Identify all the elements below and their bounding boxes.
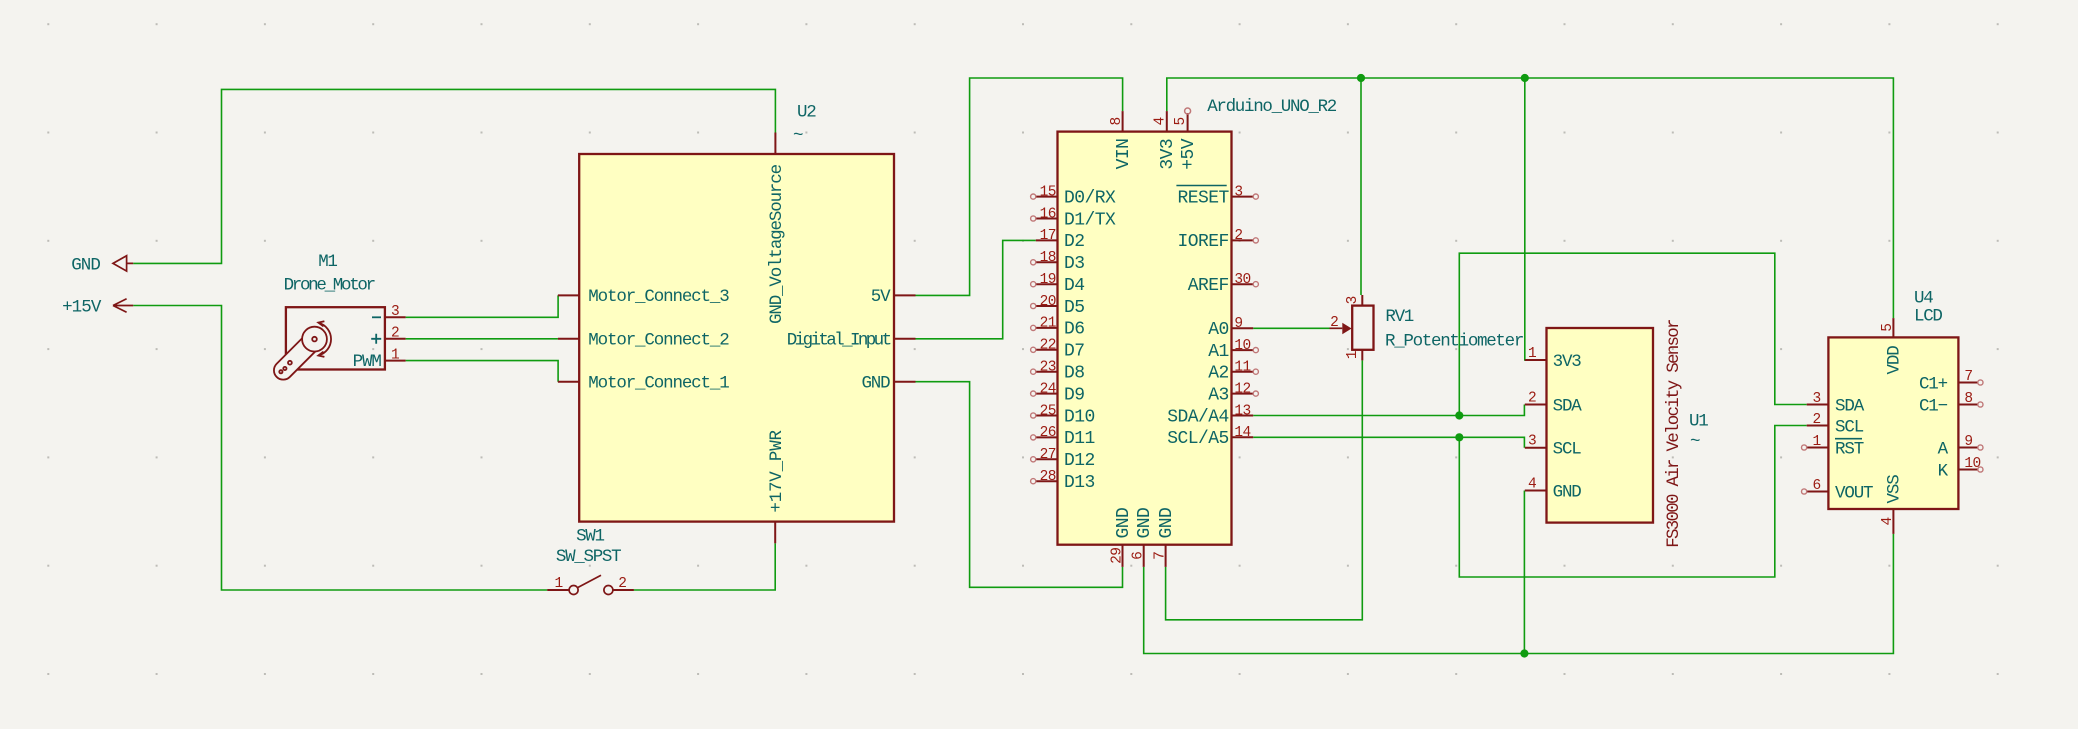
LCD pin 2 SCL [1807,425,1829,427]
svg-text:Motor_Connect_3: Motor_Connect_3 [588,287,729,307]
svg-text:D0/RX: D0/RX [1064,188,1116,208]
Arduino pin 21 D6 [1036,327,1058,329]
Arduino pin 18 D3 [1036,261,1058,263]
svg-text:9: 9 [1234,316,1242,332]
svg-text:RV1: RV1 [1385,307,1413,327]
svg-text:GND: GND [1114,508,1134,539]
svg-text:9: 9 [1964,434,1972,450]
U2 pin Motor_Connect_3 [558,294,579,296]
svg-text:5V: 5V [871,287,891,307]
svg-text:5: 5 [1880,324,1896,332]
svg-text:19: 19 [1040,272,1056,288]
svg-text:GND: GND [71,255,100,275]
Arduino pin 23 D8 [1036,371,1058,373]
svg-text:1: 1 [1813,434,1821,450]
Arduino pin 16 D1/TX [1036,218,1058,220]
Arduino GND pin 6 [1143,545,1145,567]
Arduino pin 17 D2 [1036,239,1058,241]
svg-text:M1: M1 [318,252,337,272]
Arduino pin 24 D9 [1036,393,1058,395]
RV1 pin 3 [1361,295,1363,306]
svg-text:2: 2 [1528,391,1536,407]
svg-text:5: 5 [1173,117,1189,125]
svg-text:28: 28 [1040,469,1056,485]
svg-text:D3: D3 [1064,254,1085,274]
svg-text:~: ~ [1690,432,1700,452]
LCD pin 9 A [1958,447,1977,449]
svg-text:1: 1 [555,576,563,592]
Arduino pin 28 D13 [1036,480,1058,482]
junction 3V3 rail at U1 tap [1521,74,1529,82]
svg-text:17: 17 [1040,228,1056,244]
svg-text:13: 13 [1234,403,1250,419]
switch SW1 pin 1 [547,589,569,591]
LCD pin 4 VSS [1892,509,1894,534]
svg-text:3: 3 [1234,184,1242,200]
svg-text:SCL/A5: SCL/A5 [1167,429,1229,449]
wire U2 Digital_Input to Arduino D2 [916,240,1036,338]
svg-text:SW_SPST: SW_SPST [556,547,621,567]
LCD RST overline [1835,438,1862,440]
Arduino pin 5 +5V unconnected [1187,113,1189,132]
svg-text:FS3000 Air Velocity Sensor: FS3000 Air Velocity Sensor [1664,320,1684,548]
U2 pin Motor_Connect_2 [558,338,579,340]
Arduino pin 12 A3 [1232,393,1254,395]
LCD pin 7 C1+ [1958,382,1977,384]
junction SCL [1455,433,1463,441]
Arduino pin 15 D0/RX [1036,196,1058,198]
svg-text:SDA: SDA [1835,396,1865,416]
Arduino pin 26 D11 [1036,436,1058,438]
svg-text:C1+: C1+ [1919,374,1948,394]
motor M1 pin name plus [371,334,381,344]
svg-text:4: 4 [1528,477,1536,493]
motor M1 box [286,307,385,369]
svg-text:GND: GND [1553,482,1582,502]
U2 pin 5V [894,294,916,296]
svg-text:3V3: 3V3 [1553,352,1582,372]
svg-text:SW1: SW1 [576,527,604,547]
svg-text:A2: A2 [1208,364,1229,384]
svg-text:1: 1 [1345,351,1361,359]
svg-text:8: 8 [1964,391,1972,407]
Arduino GND pin 29 [1122,545,1124,567]
svg-text:VOUT: VOUT [1835,483,1873,503]
wire M1 pin3 to U2 Motor_Connect_3 [406,295,558,317]
motor M1 icon [270,321,331,383]
svg-text:D6: D6 [1064,320,1085,340]
wire 3V3 rail: Arduino 3V3 pin to LCD VDD [1167,78,1894,318]
junction 3V3 rail at RV1 tap [1357,74,1365,82]
wire SDA net: Arduino SDA/A4 to U1 SDA [1253,405,1524,416]
svg-text:+15V: +15V [62,298,102,318]
svg-text:IOREF: IOREF [1178,232,1229,252]
U2 pin Motor_Connect_1 [558,381,579,383]
svg-text:2: 2 [391,326,399,342]
wire SCL branch to LCD SCL [1459,426,1806,578]
svg-text:22: 22 [1040,338,1056,354]
svg-text:D4: D4 [1064,276,1085,296]
svg-text:27: 27 [1040,447,1056,463]
svg-text:~: ~ [793,126,803,146]
Arduino pin 30 AREF [1232,283,1254,285]
svg-text:LCD: LCD [1914,307,1942,327]
svg-text:3: 3 [1345,296,1361,304]
svg-text:R_Potentiometer: R_Potentiometer [1385,332,1523,352]
svg-text:SCL: SCL [1835,417,1864,437]
Arduino pin 27 D12 [1036,458,1058,460]
wire SCL net: Arduino SCL/A5 to U1 SCL [1253,437,1524,447]
switch SW1 pin 2 [612,589,634,591]
Arduino pin 10 A1 [1232,349,1254,351]
svg-text:14: 14 [1234,425,1250,441]
svg-text:24: 24 [1040,381,1056,397]
svg-text:+5V: +5V [1179,138,1199,170]
Arduino U3 box [1058,132,1232,545]
svg-text:A: A [1938,439,1949,459]
RV1 pin 2 wiper arrow [1330,327,1343,329]
svg-text:2: 2 [1234,228,1242,244]
LCD pin 1 RST [1807,447,1829,449]
Arduino pin 4 3V3 [1166,111,1168,132]
svg-text:D13: D13 [1064,473,1095,493]
U2 pin Digital_Input [894,338,916,340]
U1 pin 3 SCL [1525,447,1547,449]
wire M1 pin2 to U2 Motor_Connect_2 [406,338,558,340]
svg-text:10: 10 [1234,338,1250,354]
wire +15V to switch pin1 [133,306,547,591]
svg-text:2: 2 [618,576,626,592]
junction SDA [1455,411,1463,419]
RV1 pin 1 [1361,350,1363,361]
U2 box [579,154,894,522]
Arduino pin 20 D5 [1036,305,1058,307]
wire GND net: U2 top pin to GND symbol [133,89,775,263]
Arduino RESET overline [1176,185,1226,187]
svg-text:26: 26 [1040,425,1056,441]
svg-text:VDD: VDD [1885,346,1905,375]
svg-text:AREF: AREF [1188,276,1229,296]
svg-text:7: 7 [1964,369,1972,385]
svg-text:GND_VoltageSource: GND_VoltageSource [767,164,787,324]
svg-text:4: 4 [1152,117,1168,125]
svg-text:D8: D8 [1064,364,1085,384]
motor M1 pin 1 [385,360,406,362]
Arduino pin 22 D7 [1036,349,1058,351]
motor M1 pin 2 [385,338,406,340]
Arduino pin 2 IOREF [1232,239,1254,241]
svg-text:21: 21 [1040,316,1056,332]
svg-text:D7: D7 [1064,342,1085,362]
wire U1 GND to GND rail [1523,491,1525,654]
wire Arduino A0 to RV1 wiper [1253,327,1329,329]
U2 pin GND [894,381,916,383]
svg-text:D1/TX: D1/TX [1064,210,1116,230]
svg-text:D5: D5 [1064,298,1085,318]
svg-text:VIN: VIN [1114,139,1134,170]
svg-text:GND: GND [1135,508,1155,539]
svg-text:C1−: C1− [1919,396,1948,416]
svg-text:3: 3 [1528,434,1536,450]
svg-text:2: 2 [1813,412,1821,428]
svg-text:D12: D12 [1064,451,1095,471]
power symbol GND [113,256,133,271]
svg-text:RESET: RESET [1178,188,1230,208]
svg-text:6: 6 [1131,552,1147,560]
U1 pin 2 SDA [1525,404,1547,406]
wire SDA branch to LCD SDA [1459,253,1806,415]
Arduino pin 13 SDA/A4 [1232,415,1254,417]
switch SW1 contacts and lever [569,586,578,595]
svg-text:Drone_Motor: Drone_Motor [284,275,375,295]
svg-text:3V3: 3V3 [1158,139,1178,170]
svg-text:25: 25 [1040,403,1056,419]
svg-text:3: 3 [1813,391,1821,407]
svg-text:PWM: PWM [353,352,382,372]
motor M1 pin name minus [372,316,381,318]
wire U2 5V to Arduino VIN [916,78,1123,295]
U4 LCD box [1828,337,1958,509]
svg-text:GND: GND [1157,508,1177,539]
Arduino pin 8 VIN [1122,111,1124,132]
svg-text:1: 1 [1528,346,1536,362]
svg-text:6: 6 [1813,478,1821,494]
LCD pin 6 VOUT [1807,491,1829,493]
svg-text:20: 20 [1040,294,1056,310]
Arduino pin 11 A2 [1232,371,1254,373]
wire switch pin2 to U2 +17V_PWR pin [634,543,775,590]
svg-text:SDA/A4: SDA/A4 [1167,407,1229,427]
motor M1 pin 3 [385,316,406,318]
svg-text:D2: D2 [1064,232,1085,252]
U1 box [1547,328,1654,523]
svg-text:Digital_Input: Digital_Input [787,331,891,351]
svg-text:16: 16 [1040,206,1056,222]
svg-text:U2: U2 [797,103,816,123]
wire 3V3 rail tap to U1 3V3 pin [1525,78,1529,360]
wire 3V3 rail tap to RV1 pin3 [1360,78,1362,295]
svg-text:29: 29 [1109,548,1125,564]
svg-text:4: 4 [1880,517,1896,525]
svg-text:23: 23 [1040,360,1056,376]
svg-text:7: 7 [1152,552,1168,560]
Arduino pin 9 A0 [1232,327,1254,329]
Arduino pin 3 RESET [1232,196,1254,198]
Arduino pin 19 D4 [1036,283,1058,285]
potentiometer RV1 body [1352,306,1373,350]
svg-text:11: 11 [1234,360,1250,376]
svg-text:2: 2 [1330,315,1338,331]
Arduino pin 14 SCL/A5 [1232,436,1254,438]
Arduino GND pin 7 [1165,545,1167,567]
svg-text:30: 30 [1234,272,1250,288]
wire M1 pin1 to U2 Motor_Connect_1 [406,361,558,382]
svg-text:A1: A1 [1208,342,1229,362]
svg-text:D11: D11 [1064,429,1095,449]
svg-text:12: 12 [1234,381,1250,397]
svg-text:+17V_PWR: +17V_PWR [767,429,787,512]
svg-text:SCL: SCL [1553,440,1582,460]
svg-text:A0: A0 [1208,320,1229,340]
svg-text:D10: D10 [1064,407,1095,427]
svg-text:Motor_Connect_2: Motor_Connect_2 [588,331,729,351]
U1 pin 1 3V3 [1525,359,1547,361]
junction GND rail at U1 GND [1520,649,1528,657]
power symbol +15V [113,299,133,312]
svg-text:U1: U1 [1689,412,1708,432]
svg-text:D9: D9 [1064,385,1085,405]
svg-text:18: 18 [1040,250,1056,266]
U2 top pin GND_VoltageSource stub [774,133,776,155]
LCD pin 3 SDA [1807,404,1829,406]
svg-text:8: 8 [1109,117,1125,125]
U1 pin 4 GND [1525,490,1547,492]
wire Arduino GND pin7 to RV1 pin1 [1166,360,1363,619]
svg-text:Arduino_UNO_R2: Arduino_UNO_R2 [1207,97,1337,117]
svg-text:15: 15 [1040,184,1056,200]
svg-text:Motor_Connect_1: Motor_Connect_1 [588,374,729,394]
U2 bottom pin +17V_PWR stub [774,522,776,544]
svg-text:3: 3 [391,304,399,320]
svg-text:GND: GND [861,374,890,394]
svg-text:VSS: VSS [1885,475,1905,504]
svg-text:SDA: SDA [1553,396,1583,416]
svg-text:1: 1 [391,348,399,364]
LCD pin 5 VDD [1892,318,1894,337]
svg-text:A3: A3 [1208,385,1229,405]
wire U2 GND to Arduino GND pin29 [916,382,1123,588]
svg-text:RST: RST [1835,439,1864,459]
LCD pin 10 K [1958,469,1977,471]
Arduino pin 25 D10 [1036,415,1058,417]
LCD pin 8 C1− [1958,404,1977,406]
wire GND rail: Arduino GND pin6 to LCD VSS [1144,534,1894,654]
svg-text:K: K [1938,461,1949,481]
